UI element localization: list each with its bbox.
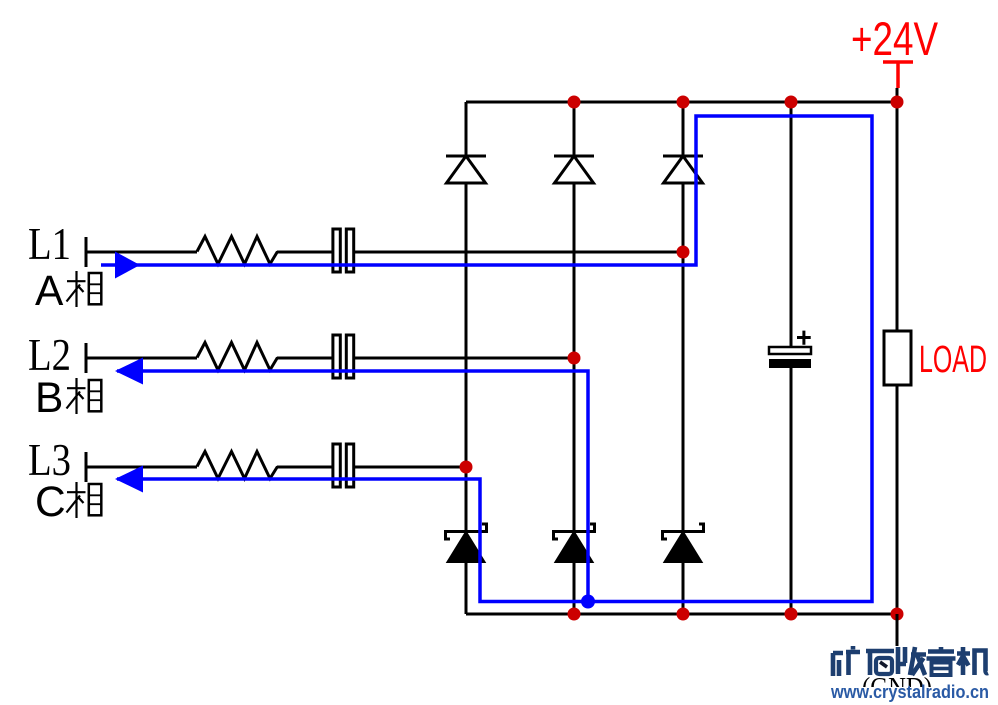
wire column3 middle <box>682 183 685 532</box>
watermark background <box>826 646 998 705</box>
node phase B <box>568 352 581 365</box>
node top rail x574 <box>568 96 581 109</box>
wire column2 upper <box>573 102 576 156</box>
wire capacitor column lower <box>790 368 793 614</box>
wire column1 lower <box>465 562 468 614</box>
wire C1 to node A <box>353 251 683 254</box>
node phase C <box>460 461 473 474</box>
wire column2 lower <box>573 562 576 614</box>
svg-text:A: A <box>35 268 64 315</box>
wire R3 to C3 <box>277 466 333 469</box>
power +24V terminal <box>883 62 913 102</box>
svg-text:LOAD: LOAD <box>919 339 987 381</box>
capacitor C2 <box>333 335 354 378</box>
terminal L3 <box>85 452 88 482</box>
junction blue node <box>581 595 595 609</box>
svg-text:+24V: +24V <box>851 12 939 65</box>
load resistor <box>884 331 911 385</box>
watermark 矿石收音机 <box>833 646 988 676</box>
node bottom rail x683 <box>677 608 690 621</box>
svg-text:L2: L2 <box>28 330 71 380</box>
wire C2 to node B <box>353 357 574 360</box>
wire R2 to C2 <box>277 357 333 360</box>
diode D3 <box>663 156 703 183</box>
node top rail x791 <box>785 96 798 109</box>
terminal L1 <box>85 237 88 267</box>
node bottom rail x897 <box>891 608 904 621</box>
svg-text:C: C <box>35 479 66 526</box>
terminal L2 <box>85 343 88 373</box>
arrow L1 (right) <box>115 252 140 279</box>
resistor R2 <box>197 343 278 371</box>
arrow L3 (left) <box>115 466 143 493</box>
resistor R1 <box>197 237 278 265</box>
wire L3 to resistor <box>86 466 197 469</box>
wire bottom rail <box>466 613 897 616</box>
svg-text:www.crystalradio.cn: www.crystalradio.cn <box>830 681 989 702</box>
node +24V <box>891 96 904 109</box>
wire L1 to resistor <box>86 251 197 254</box>
wire L2 to resistor <box>86 357 197 360</box>
node bottom rail x574 <box>568 608 581 621</box>
label A相 <box>35 268 101 315</box>
wire load column lower <box>896 385 899 614</box>
node bottom rail x791 <box>785 608 798 621</box>
node phase A <box>677 246 690 259</box>
wire column1 middle <box>465 183 468 532</box>
wire R1 to C1 <box>277 251 333 254</box>
capacitor C4 (electrolytic) <box>769 331 811 368</box>
svg-text:B: B <box>35 375 63 422</box>
svg-text:L3: L3 <box>28 435 71 485</box>
svg-text:L1: L1 <box>28 219 71 269</box>
wire column3 upper <box>682 102 685 156</box>
wire column2 middle <box>573 183 576 532</box>
wire column1 upper <box>465 102 468 156</box>
label B相 <box>35 375 101 422</box>
watermark lower background <box>826 687 998 705</box>
diode D2 <box>554 156 594 183</box>
wire load column upper <box>896 102 899 331</box>
resistor R3 <box>197 452 278 479</box>
capacitor C1 <box>333 229 354 272</box>
blue current path main loop <box>101 116 872 602</box>
wire C3 to node C <box>353 466 466 469</box>
arrow L2 (left) <box>115 358 143 385</box>
wire top rail <box>466 101 897 104</box>
wire capacitor column upper <box>790 102 793 347</box>
diode D4 (schottky) <box>446 524 487 562</box>
wire GND stem <box>896 614 899 649</box>
capacitor C3 <box>333 444 354 487</box>
diode D6 (schottky) <box>663 524 704 562</box>
diode D5 (schottky) <box>554 524 595 562</box>
wire column3 lower <box>682 562 685 614</box>
blue current path L2 branch <box>117 371 588 602</box>
node top rail x683 <box>677 96 690 109</box>
label C相 <box>35 479 101 526</box>
diode D1 <box>446 156 486 183</box>
